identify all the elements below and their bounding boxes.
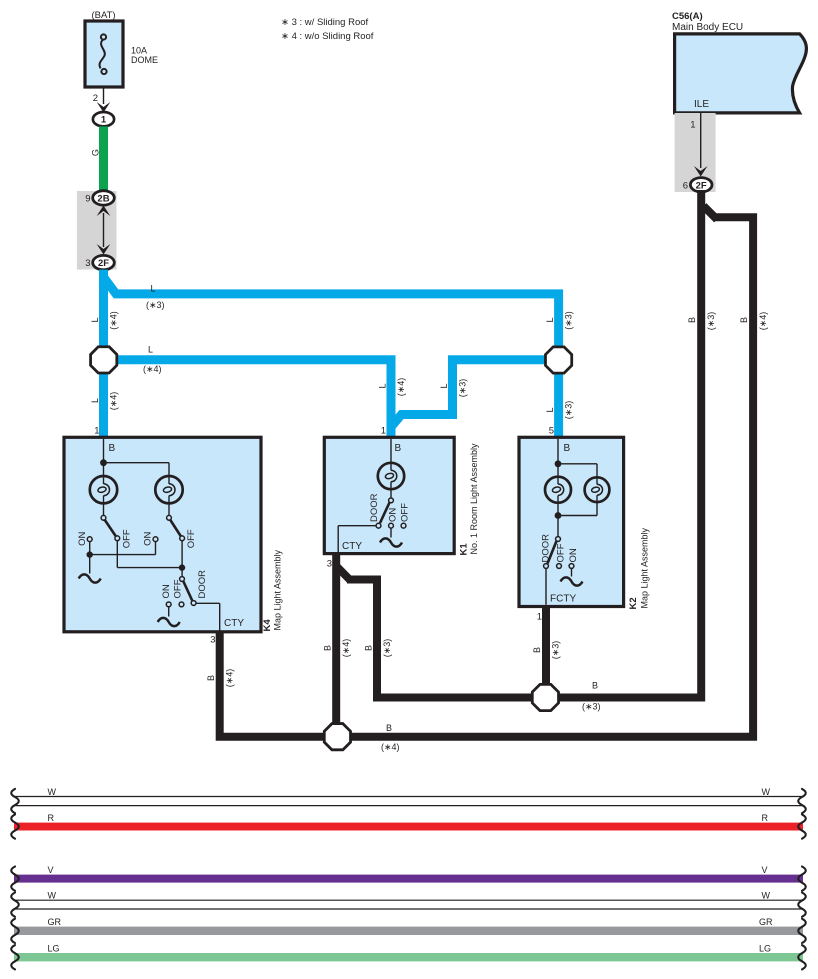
svg-text:OFF: OFF	[186, 529, 197, 548]
K1 switch contacts	[376, 498, 406, 528]
svg-text:G: G	[90, 149, 100, 156]
wire L from 2F down to junction J1	[99, 270, 108, 348]
wire B diagonal branch from K1 pin 3	[337, 567, 351, 581]
svg-text:(∗3): (∗3)	[564, 401, 574, 420]
K1 lamp	[378, 463, 404, 489]
svg-text:W: W	[762, 787, 771, 797]
svg-text:(∗4): (∗4)	[109, 392, 119, 411]
arrow up from 2B	[97, 206, 111, 217]
svg-text:B: B	[592, 681, 598, 691]
K4 ground squiggle left	[79, 574, 101, 582]
fuse element symbol	[100, 34, 107, 74]
svg-text:DOOR: DOOR	[197, 570, 208, 599]
svg-text:5: 5	[549, 426, 554, 437]
svg-text:ILE: ILE	[694, 99, 709, 110]
svg-text:2: 2	[93, 93, 98, 104]
wire W band 2	[11, 891, 806, 917]
K4 junction dot top	[100, 459, 107, 466]
wire B from ECU 2F down + (*3) horizontal + K1 branch riser	[347, 190, 701, 698]
svg-text:V: V	[48, 865, 54, 875]
K4 wire OFF1 down and across	[116, 541, 118, 568]
svg-text:1: 1	[537, 612, 542, 623]
wire GR band	[11, 917, 806, 943]
K4 wire door switch to CTY pin	[196, 602, 220, 604]
svg-text:ON: ON	[388, 508, 399, 522]
svg-text:(BAT): (BAT)	[91, 10, 115, 21]
svg-text:L: L	[545, 407, 555, 412]
svg-text:(∗3): (∗3)	[458, 379, 468, 398]
K2 junction dot bottom	[555, 512, 562, 519]
svg-text:ON: ON	[143, 532, 154, 546]
svg-text:(∗4): (∗4)	[381, 742, 400, 752]
wire L below J1 to K4 pin 1	[99, 360, 108, 437]
K1 wire ON to squiggle	[390, 528, 392, 537]
svg-text:R: R	[762, 813, 769, 823]
K1 door switch blade	[380, 503, 390, 524]
junction J2 octagon	[545, 347, 571, 373]
K1 box	[324, 437, 454, 553]
K2 ground squiggle	[561, 577, 583, 585]
svg-text:K2: K2	[628, 597, 639, 609]
K2 lamp 1	[545, 477, 571, 503]
wire B K2 pin 1 drop to J4	[542, 607, 550, 690]
K4 box	[64, 437, 261, 632]
K2 wire lamps to switch	[557, 496, 559, 537]
svg-text:W: W	[48, 891, 57, 901]
K1 ground squiggle	[380, 538, 402, 546]
svg-text:FCTY: FCTY	[550, 594, 576, 605]
svg-text:(∗3): (∗3)	[551, 641, 561, 660]
svg-text:B: B	[739, 317, 749, 323]
K4 lamp 1	[90, 476, 117, 503]
svg-text:B: B	[564, 443, 571, 454]
svg-text:LG: LG	[48, 944, 60, 954]
K4 ground squiggle right	[158, 618, 180, 626]
K2 wire DOOR contact to FCTY	[545, 568, 547, 604]
connector 2F oval	[93, 255, 115, 269]
K1 wire lamp to switch	[390, 482, 392, 499]
svg-text:2F: 2F	[696, 180, 707, 191]
svg-text:B: B	[109, 443, 116, 454]
wire L below right octagon to K2 pin 5	[554, 360, 563, 437]
svg-text:B: B	[206, 675, 216, 681]
svg-text:W: W	[762, 891, 771, 901]
svg-text:Main Body ECU: Main Body ECU	[672, 22, 743, 33]
K1 wire pin1 to lamp	[390, 439, 392, 471]
svg-text:CTY: CTY	[224, 618, 244, 629]
K4 junction dot ON bus	[87, 551, 93, 557]
svg-text:(∗4): (∗4)	[109, 311, 119, 330]
svg-text:ON: ON	[568, 548, 579, 562]
svg-text:OFF: OFF	[122, 529, 133, 548]
svg-text:Map Light Assembly: Map Light Assembly	[640, 527, 650, 608]
K4 switch SW2 blade	[170, 520, 181, 537]
fuse DOME 10A box	[85, 21, 123, 87]
K4 door switch SW3 blade	[183, 581, 192, 601]
K2 switch contacts	[544, 537, 574, 569]
K4 wire OFF2 down	[181, 541, 183, 577]
svg-text:B: B	[386, 723, 392, 733]
svg-text:B: B	[395, 443, 402, 454]
K4 switch SW1 blade	[105, 520, 117, 537]
svg-text:1: 1	[690, 120, 695, 131]
wire fuse to connector 1	[103, 86, 105, 104]
K4 SW1 contacts	[87, 515, 119, 541]
svg-text:(∗3): (∗3)	[382, 639, 392, 658]
svg-text:OFF: OFF	[173, 579, 184, 598]
svg-text:V: V	[762, 865, 768, 875]
K4 SW3 contacts	[166, 577, 196, 607]
wire inside junction block	[103, 213, 105, 247]
svg-text:(∗3): (∗3)	[706, 312, 716, 331]
connector 2B oval	[93, 191, 115, 205]
svg-text:DOOR: DOOR	[541, 534, 552, 563]
K4 wire pin1 to lamps	[103, 439, 105, 484]
svg-text:K4: K4	[262, 619, 273, 632]
svg-text:OFF: OFF	[556, 543, 567, 562]
svg-text:(∗4): (∗4)	[758, 312, 768, 331]
wire L (*3) jog from K1 pin up to right octagon	[391, 360, 548, 427]
svg-text:K1: K1	[459, 543, 470, 556]
svg-text:1: 1	[381, 426, 386, 437]
junction connector gray block 2B/2F	[77, 191, 117, 270]
wire W band 1	[11, 787, 806, 813]
svg-text:B: B	[323, 645, 333, 651]
svg-text:(∗4): (∗4)	[396, 378, 406, 397]
junction J1 octagon	[91, 347, 117, 373]
svg-text:6: 6	[683, 181, 688, 192]
wire ECU pin to 2F	[700, 113, 702, 168]
svg-text:ON: ON	[77, 532, 88, 546]
op-amp style ECU box C56	[675, 34, 807, 113]
svg-text:(∗4): (∗4)	[341, 639, 351, 658]
K2 box	[519, 437, 624, 606]
K1 wire DOOR contact to CTY	[338, 525, 376, 527]
svg-text:(∗4): (∗4)	[225, 669, 235, 688]
svg-text:C56(A): C56(A)	[672, 11, 703, 22]
arrow down to 2F (ECU side)	[694, 166, 708, 177]
K2 lamp 2	[585, 477, 610, 502]
svg-text:DOOR: DOOR	[369, 493, 380, 522]
svg-text:(∗3): (∗3)	[146, 300, 165, 310]
svg-text:∗ 4 : w/o Sliding Roof: ∗ 4 : w/o Sliding Roof	[281, 31, 374, 42]
wire B (*4): K4 drop, bottom horizontal, right riser	[220, 217, 753, 736]
wire L (*4) horizontal J1 to K1	[112, 360, 391, 437]
svg-text:B: B	[364, 645, 374, 651]
svg-text:B: B	[532, 647, 542, 653]
svg-text:ON: ON	[161, 584, 172, 598]
svg-text:L: L	[148, 345, 153, 355]
svg-text:1: 1	[101, 115, 107, 126]
wire V band	[11, 865, 806, 891]
svg-text:2F: 2F	[98, 258, 109, 269]
K4 wire lamp1 to switch1	[103, 496, 105, 516]
K2 junction dot top	[555, 460, 562, 467]
K4 wire ON3 to squiggle	[168, 607, 170, 617]
wire G green fuse feed	[99, 126, 108, 192]
K4 junction dot OFF bus	[179, 564, 185, 570]
wire B (*4) branch from ECU wire to right drop	[704, 206, 718, 220]
svg-text:3: 3	[210, 635, 215, 646]
svg-text:GR: GR	[759, 917, 773, 927]
K2 wire ON to squiggle	[571, 568, 573, 576]
svg-text:L: L	[151, 284, 156, 294]
svg-text:3: 3	[327, 559, 332, 570]
svg-text:L: L	[545, 317, 555, 322]
svg-text:OFF: OFF	[400, 503, 411, 522]
svg-text:CTY: CTY	[342, 541, 362, 552]
svg-text:DOME: DOME	[131, 55, 158, 65]
wire B K1 pin 3 drop to J3	[332, 555, 340, 730]
svg-text:(∗3): (∗3)	[564, 311, 574, 330]
K4 lamp 2	[155, 476, 182, 503]
svg-text:L: L	[90, 398, 100, 403]
connector 1 oval	[93, 112, 114, 126]
svg-text:L: L	[90, 317, 100, 322]
wire L (*3) branch to right octagon top	[104, 277, 559, 348]
junction connector gray block 2F (ECU side)	[675, 113, 716, 192]
junction J4 octagon	[532, 684, 558, 710]
junction J3 octagon	[324, 724, 350, 750]
svg-text:No. 1 Room Light Assembly: No. 1 Room Light Assembly	[469, 443, 479, 555]
K4 SW2 contacts	[153, 515, 184, 541]
connector 2F oval (ECU side)	[690, 178, 712, 192]
svg-text:2B: 2B	[97, 193, 109, 204]
svg-text:Map Light Assembly: Map Light Assembly	[273, 549, 283, 630]
svg-text:LG: LG	[759, 944, 771, 954]
svg-text:3: 3	[85, 258, 90, 269]
svg-text:L: L	[378, 383, 388, 388]
arrow down into connector 1	[97, 102, 111, 113]
K4 wire ON1 to bus	[89, 542, 91, 574]
svg-text:L: L	[439, 383, 449, 388]
arrow down to 2F	[97, 244, 111, 255]
svg-text:B: B	[687, 317, 697, 323]
svg-text:GR: GR	[48, 917, 62, 927]
svg-text:R: R	[48, 813, 55, 823]
K2 wire pin5 to lamps	[557, 439, 559, 484]
K2 door switch blade	[548, 541, 557, 564]
svg-text:9: 9	[85, 194, 90, 205]
svg-text:10A: 10A	[131, 46, 147, 56]
wire R band	[11, 813, 806, 839]
svg-text:W: W	[48, 787, 57, 797]
svg-text:1: 1	[94, 426, 99, 437]
svg-text:(∗4): (∗4)	[143, 364, 162, 374]
svg-text:∗ 3 : w/ Sliding Roof: ∗ 3 : w/ Sliding Roof	[281, 17, 369, 28]
svg-text:(∗3): (∗3)	[582, 702, 601, 712]
wire LG band	[11, 944, 806, 970]
